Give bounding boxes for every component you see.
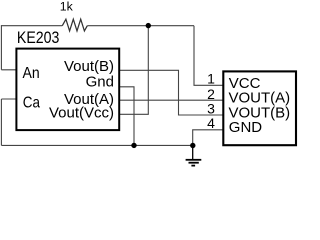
wire: Gnd drop to bottom net — [120, 87, 134, 146]
wire: Vout(A) to pin 2 — [120, 99, 223, 101]
IC box KE203 — [16, 49, 119, 131]
wire: bottom ground net horizontal — [1, 144, 192, 146]
ground symbol — [186, 146, 202, 166]
wire: Vout(Vcc) riser to top junction — [119, 26, 148, 115]
wire: Vout(B) to pin 3 — [120, 70, 223, 115]
svg-text:An: An — [23, 65, 40, 82]
wire: pin 4 to ground net — [193, 130, 223, 146]
svg-text:Ca: Ca — [23, 95, 40, 112]
connector box — [223, 71, 296, 145]
svg-text:Vout(Vcc): Vout(Vcc) — [49, 105, 114, 122]
svg-text:2: 2 — [207, 86, 215, 102]
junction dot on top wire — [146, 23, 151, 28]
svg-text:1k: 1k — [60, 0, 74, 14]
svg-text:Vout(B): Vout(B) — [64, 58, 114, 75]
svg-text:Gnd: Gnd — [86, 74, 114, 91]
svg-text:GND: GND — [229, 119, 262, 136]
svg-text:KE203: KE203 — [17, 29, 60, 47]
junction dot gnd/bottom — [131, 143, 136, 148]
wire: top VCC net horizontal — [1, 25, 194, 27]
svg-text:3: 3 — [207, 100, 215, 116]
resistor R1 1k zigzag — [62, 19, 87, 31]
junction dot ground symbol — [190, 143, 195, 148]
svg-text:4: 4 — [207, 115, 215, 131]
wire: left anode vertical + stub — [1, 25, 17, 70]
wire: VCC drop to pin 1 — [194, 26, 223, 86]
svg-text:1: 1 — [207, 71, 215, 87]
wire: left cathode stub + vertical — [1, 99, 17, 145]
